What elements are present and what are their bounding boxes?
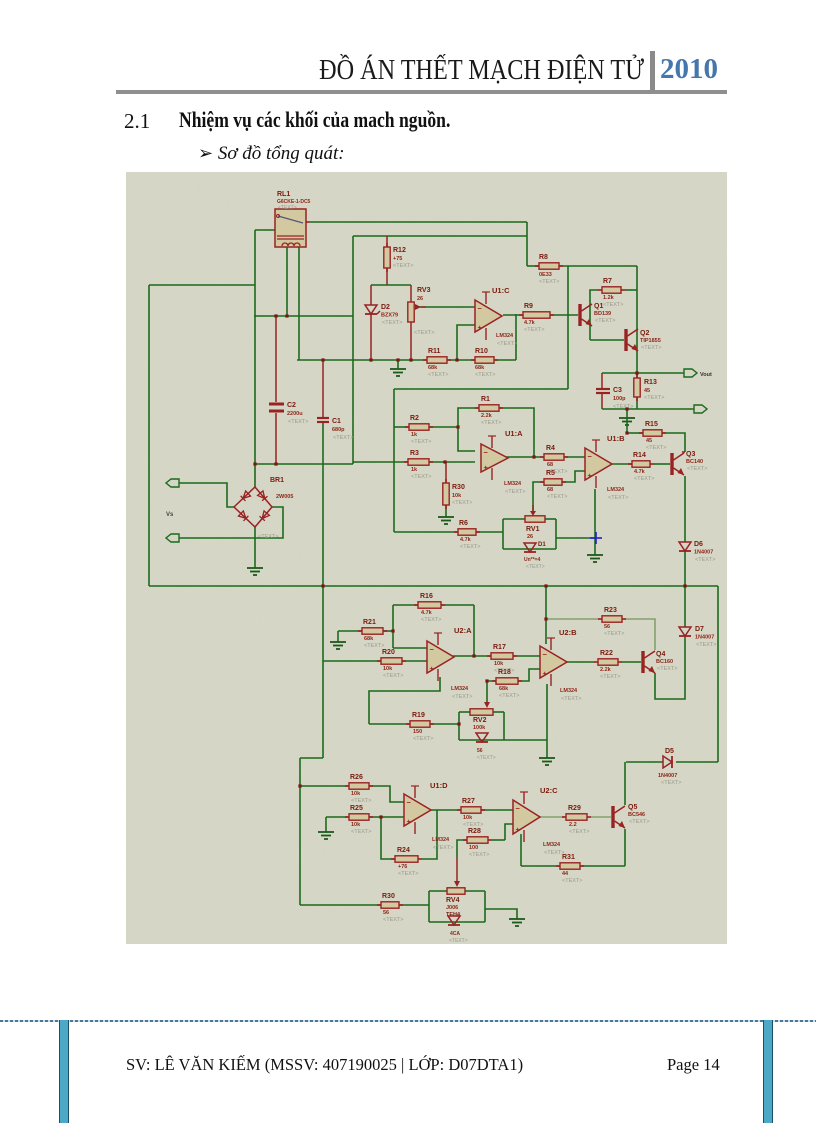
ground (RV2) xyxy=(539,757,555,759)
ground (R21) xyxy=(330,641,346,643)
resistor R5 xyxy=(540,481,544,483)
svg-text:R30: R30 xyxy=(382,893,395,900)
header title xyxy=(87,55,644,87)
svg-text:<TEXT>: <TEXT> xyxy=(539,279,559,285)
svg-text:<TEXT>: <TEXT> xyxy=(608,495,628,501)
wire y316 row xyxy=(254,315,353,317)
svg-text:10k: 10k xyxy=(452,493,462,499)
svg-text:68k: 68k xyxy=(428,365,438,371)
svg-text:RL1: RL1 xyxy=(277,191,290,198)
wire y758 jog xyxy=(300,757,323,759)
wire Q4 emitter loop xyxy=(655,637,685,699)
svg-text:<TEXT>: <TEXT> xyxy=(604,631,624,637)
svg-text:<TEXT>: <TEXT> xyxy=(481,420,501,426)
svg-text:<TEXT>: <TEXT> xyxy=(278,205,297,211)
wire U2:B out to R22 xyxy=(566,661,594,663)
svg-text:<TEXT>: <TEXT> xyxy=(603,302,623,308)
wire RV2 right rail xyxy=(503,712,505,740)
wire RV1 box bottom rail xyxy=(503,548,556,550)
ground (R11 row) xyxy=(390,368,406,370)
wire RV1 rail top xyxy=(503,518,525,520)
wire C1 top stem xyxy=(322,360,324,417)
svg-text:LM324: LM324 xyxy=(543,842,561,848)
page number xyxy=(667,1055,720,1075)
svg-text:<TEXT>: <TEXT> xyxy=(452,500,472,506)
wire R14 to Q3 base xyxy=(654,463,670,465)
svg-text:−: − xyxy=(407,798,412,807)
resistor R18 xyxy=(492,680,496,682)
wire RV4 wiper red xyxy=(456,858,458,884)
wire R25 gnd stem xyxy=(325,817,327,832)
wire y360 row xyxy=(297,359,427,361)
svg-text:R25: R25 xyxy=(350,805,363,812)
wire main +rail x637 xyxy=(636,266,638,378)
svg-text:R18: R18 xyxy=(498,669,511,676)
svg-text:<TEXT>: <TEXT> xyxy=(421,617,441,623)
svg-text:1N4007: 1N4007 xyxy=(695,635,714,641)
wire R22 to Q4 base xyxy=(622,661,641,663)
svg-text:680p: 680p xyxy=(332,427,345,433)
wire R7 right to rail xyxy=(625,289,637,291)
svg-text:RV3: RV3 xyxy=(417,287,431,294)
svg-text:LM324: LM324 xyxy=(607,487,625,493)
svg-text:R13: R13 xyxy=(644,379,657,386)
wire R21 row xyxy=(338,630,362,632)
wire input terminal bottom elbow xyxy=(179,507,283,538)
wire R4 to U1:B plus xyxy=(564,456,585,458)
wire U2:C bottom to R31 xyxy=(520,834,522,866)
svg-text:<TEXT>: <TEXT> xyxy=(524,327,544,333)
wire R9 to Q1 base xyxy=(550,314,578,316)
transistor Q4 xyxy=(641,651,644,673)
svg-text:R7: R7 xyxy=(603,278,612,285)
svg-text:4.7k: 4.7k xyxy=(421,610,433,616)
svg-text:<TEXT>: <TEXT> xyxy=(613,404,633,410)
wire U1:C feedback x516 xyxy=(515,314,517,360)
resistor R9 xyxy=(519,314,523,316)
svg-text:68: 68 xyxy=(547,462,553,468)
wire RV2 box left rail xyxy=(458,712,460,740)
svg-text:<TEXT>: <TEXT> xyxy=(333,435,353,441)
wire x527 drop xyxy=(526,222,528,266)
svg-text:Vs: Vs xyxy=(166,512,174,518)
svg-text:R21: R21 xyxy=(363,619,376,626)
wire U1:D out row xyxy=(430,809,461,811)
potentiometer RV2 xyxy=(470,709,493,715)
header year xyxy=(660,53,718,86)
svg-text:U1:C: U1:C xyxy=(492,286,510,295)
wire U2:A bottom loop to R19 xyxy=(369,677,440,724)
diode D3 xyxy=(476,733,488,742)
wire U2:A out row xyxy=(453,655,491,657)
svg-text:U2:B: U2:B xyxy=(559,628,577,637)
wire Q3 collector diag join xyxy=(682,451,685,453)
wire D6 to supply rail xyxy=(684,551,686,586)
wire R3 row xyxy=(353,461,408,463)
transistor Q2 xyxy=(624,329,627,351)
bridge rectifier BR1 xyxy=(234,487,272,527)
wire U1:B out to R14 xyxy=(609,463,632,465)
svg-text:<TEXT>: <TEXT> xyxy=(562,878,582,884)
resistor R30 xyxy=(445,479,447,483)
wire R21 gnd stem xyxy=(337,631,339,642)
ground (R25) xyxy=(318,831,334,833)
svg-text:R9: R9 xyxy=(524,303,533,310)
wire R13 bottom stem xyxy=(636,397,638,409)
svg-text:RV1: RV1 xyxy=(526,526,540,533)
diode D1 xyxy=(524,543,536,552)
wire relay left pin xyxy=(255,229,277,231)
wire RV4 tap to ground xyxy=(485,909,517,919)
capacitor C3 xyxy=(596,388,610,390)
svg-text:<TEXT>: <TEXT> xyxy=(477,755,496,761)
svg-text:C1: C1 xyxy=(332,418,341,425)
svg-text:Q2: Q2 xyxy=(640,330,649,337)
wire C1 bottom long vertical xyxy=(322,423,324,586)
junctions xyxy=(253,462,256,465)
wire U2:B gnd vertical xyxy=(546,684,548,758)
svg-text:Q1: Q1 xyxy=(594,303,603,310)
svg-text:<TEXT>: <TEXT> xyxy=(398,871,418,877)
svg-text:R8: R8 xyxy=(539,254,548,261)
wire x394 vertical xyxy=(393,389,395,532)
wire U2:C out to R29 pale xyxy=(539,816,566,818)
resistor R22 xyxy=(594,661,598,663)
svg-text:−: − xyxy=(516,804,521,813)
svg-text:10k: 10k xyxy=(351,822,361,828)
svg-text:<TEXT>: <TEXT> xyxy=(561,696,581,702)
svg-text:56: 56 xyxy=(604,624,610,630)
svg-text:+76: +76 xyxy=(398,864,407,870)
svg-text:<TEXT>: <TEXT> xyxy=(695,557,715,563)
wire R28 left to RV4 wiper xyxy=(457,840,467,858)
resistor R26 xyxy=(345,785,349,787)
wire R1 right loop xyxy=(499,408,534,457)
wire D7 top stem xyxy=(684,586,686,627)
wire RV3 stems xyxy=(410,285,412,302)
svg-text:R1: R1 xyxy=(481,396,490,403)
wire R24 left to R25 node xyxy=(381,817,395,859)
wire right edge vertical x718 xyxy=(717,586,719,762)
wire C2 top stem xyxy=(275,316,277,402)
footer dashed line xyxy=(0,1020,816,1022)
wire x324 lower vertical xyxy=(322,586,324,758)
svg-text:4CA: 4CA xyxy=(450,931,460,937)
svg-text:68k: 68k xyxy=(475,365,485,371)
header vertical bar xyxy=(650,51,655,93)
svg-text:R28: R28 xyxy=(468,828,481,835)
svg-text:Un**=4: Un**=4 xyxy=(524,557,540,563)
wire R26 elbow to U1:D xyxy=(369,786,404,802)
wire R28 row xyxy=(492,839,505,841)
wire R19 row xyxy=(369,723,410,725)
wire Q3 emitter down to D6 xyxy=(684,476,686,542)
op-amp U2:C xyxy=(513,800,540,834)
resistor R28 xyxy=(463,839,467,841)
wire R18 elbow to U2:B xyxy=(518,669,540,681)
svg-text:100: 100 xyxy=(469,845,478,851)
diode D4 xyxy=(448,916,460,925)
wire RV2 top rail xyxy=(459,711,470,713)
wire U2:A plus row y661 xyxy=(323,660,381,662)
svg-text:Q3: Q3 xyxy=(686,451,695,458)
svg-text:R11: R11 xyxy=(428,348,441,355)
wire y285 spur xyxy=(149,284,255,286)
svg-text:LM324: LM324 xyxy=(451,686,469,692)
svg-text:LM324: LM324 xyxy=(560,688,578,694)
svg-text:0E33: 0E33 xyxy=(539,272,552,278)
svg-text:<TEXT>: <TEXT> xyxy=(687,466,707,472)
wire supply bottom rail y586 xyxy=(149,585,718,587)
wire R15 right to Q3 collector xyxy=(662,433,685,452)
svg-text:R16: R16 xyxy=(420,593,433,600)
svg-text:<TEXT>: <TEXT> xyxy=(544,850,564,856)
resistor R15 xyxy=(639,432,643,434)
svg-text:U1:A: U1:A xyxy=(505,429,523,438)
svg-text:2.2k: 2.2k xyxy=(600,667,612,673)
footer text xyxy=(126,1055,523,1075)
input terminal top xyxy=(166,479,179,487)
svg-text:R30: R30 xyxy=(452,484,465,491)
wire U1:B bottom to ground xyxy=(594,489,596,555)
wire U1:D feedback x437 xyxy=(422,810,437,859)
svg-text:BC140: BC140 xyxy=(686,459,703,465)
bullet line xyxy=(198,143,345,165)
svg-text:<TEXT>: <TEXT> xyxy=(629,819,649,825)
wire RV1 box left rail xyxy=(502,519,504,549)
svg-text:Vout: Vout xyxy=(700,372,712,378)
svg-text:<TEXT>: <TEXT> xyxy=(383,917,403,923)
ground (R15) xyxy=(619,417,635,419)
svg-text:2W005: 2W005 xyxy=(276,494,293,500)
svg-text:<TEXT>: <TEXT> xyxy=(433,845,453,851)
diode D5 xyxy=(663,756,672,768)
svg-text:+: + xyxy=(516,825,521,834)
svg-text:+: + xyxy=(430,664,435,673)
wire R5 elbow to U1:B minus xyxy=(562,471,585,482)
wire D5 row xyxy=(626,761,663,763)
schematic panel xyxy=(126,172,727,944)
svg-text:<TEXT>: <TEXT> xyxy=(497,341,517,347)
wire Q1 emitter to Q2 base xyxy=(590,339,624,341)
resistor R27 xyxy=(457,809,461,811)
wire bias vertical x568 xyxy=(567,266,569,389)
svg-text:2200u: 2200u xyxy=(287,411,303,417)
wire R28 elbow to U2:C minus xyxy=(505,824,513,840)
svg-text:D2: D2 xyxy=(381,304,390,311)
wire Q1 collector up xyxy=(590,290,598,340)
wire out row y409 xyxy=(602,408,694,410)
svg-text:R4: R4 xyxy=(546,445,555,452)
svg-text:R26: R26 xyxy=(350,774,363,781)
svg-text:26: 26 xyxy=(527,534,533,540)
svg-text:<TEXT>: <TEXT> xyxy=(499,693,519,699)
svg-text:<TEXT>: <TEXT> xyxy=(393,263,413,269)
potentiometer RV3 xyxy=(408,302,414,322)
svg-text:R23: R23 xyxy=(604,607,617,614)
svg-text:<TEXT>: <TEXT> xyxy=(634,476,654,482)
svg-text:R22: R22 xyxy=(600,650,613,657)
svg-text:U1:B: U1:B xyxy=(607,434,625,443)
wire C3 bottom stem xyxy=(601,394,603,409)
svg-text:R5: R5 xyxy=(546,470,555,477)
svg-text:U2:A: U2:A xyxy=(454,626,472,635)
svg-text:+: + xyxy=(543,669,548,678)
wire gnd stem under out row xyxy=(626,409,628,416)
wire RV4 box left rail xyxy=(428,891,430,922)
wire bridge bottom to ground xyxy=(254,527,256,568)
svg-text:C2: C2 xyxy=(287,402,296,409)
svg-text:+: + xyxy=(484,463,489,472)
wire R18 left drop to RV2 wiper xyxy=(487,681,496,705)
svg-text:<TEXT>: <TEXT> xyxy=(411,439,431,445)
wire R6 row xyxy=(394,531,458,533)
wire U1:C out to R9 xyxy=(503,314,523,316)
resistor R11 xyxy=(423,359,427,361)
svg-text:−: − xyxy=(478,304,483,313)
ground (R30a) xyxy=(438,516,454,518)
svg-text:<TEXT>: <TEXT> xyxy=(288,419,308,425)
wire R30a to ground xyxy=(445,505,447,517)
svg-text:−: − xyxy=(430,645,435,654)
svg-text:68: 68 xyxy=(547,487,553,493)
svg-text:D7: D7 xyxy=(695,626,704,633)
header rule xyxy=(116,90,727,94)
wire R12 bottom stem xyxy=(386,268,388,285)
wire Q5 collector up xyxy=(624,762,626,805)
wire RV2 bottom rail to gnd xyxy=(459,739,547,741)
svg-text:150: 150 xyxy=(413,729,422,735)
svg-text:45: 45 xyxy=(644,388,650,394)
wire relay coil pin1 drop xyxy=(286,247,288,316)
svg-text:56: 56 xyxy=(383,910,389,916)
svg-text:Q5: Q5 xyxy=(628,804,637,811)
wire far-left vertical x149 xyxy=(148,285,150,586)
resistor R6 xyxy=(454,531,458,533)
wire y464 rectified rail xyxy=(255,463,353,465)
svg-text:LM324: LM324 xyxy=(496,333,514,339)
svg-text:LM324: LM324 xyxy=(504,481,522,487)
svg-text:4.7k: 4.7k xyxy=(524,320,536,326)
resistor R29 xyxy=(562,816,566,818)
wire U2 supply vertical x546 xyxy=(545,586,547,644)
op-amp U2:B xyxy=(540,646,567,678)
wire relay coil pin2 drop xyxy=(298,247,300,360)
svg-text:R19: R19 xyxy=(412,712,425,719)
wire y389 row xyxy=(394,388,568,390)
potentiometer RV1 xyxy=(525,516,545,522)
resistor R25 xyxy=(345,816,349,818)
resistor R16 xyxy=(414,604,418,606)
svg-text:4.7k: 4.7k xyxy=(460,537,472,543)
wire RV1 tap to node xyxy=(556,537,595,539)
svg-text:<TEXT>: <TEXT> xyxy=(646,445,666,451)
svg-text:1k: 1k xyxy=(411,432,418,438)
wire U1:C plus input xyxy=(457,325,475,360)
ground (bridge) xyxy=(247,567,263,569)
svg-text:BZX79: BZX79 xyxy=(381,313,398,319)
wire R1 left loop xyxy=(458,408,479,451)
wire relay switch to x527 rail xyxy=(309,221,527,223)
svg-text:<TEXT>: <TEXT> xyxy=(475,372,495,378)
wire C3 top stem xyxy=(601,373,603,388)
svg-text:R17: R17 xyxy=(493,644,506,651)
resistor R14 xyxy=(628,463,632,465)
svg-text:26: 26 xyxy=(417,296,423,302)
wire R2 row xyxy=(394,426,409,428)
svg-text:+: + xyxy=(407,817,412,826)
wire R15 left xyxy=(627,432,643,434)
svg-text:RV2: RV2 xyxy=(473,717,487,724)
svg-text:<TEXT>: <TEXT> xyxy=(644,395,664,401)
wire R16 feedback x474 xyxy=(473,605,475,656)
wire R23 right to Q4 collector xyxy=(626,619,655,650)
svg-text:68k: 68k xyxy=(364,636,374,642)
svg-text:<TEXT>: <TEXT> xyxy=(600,674,620,680)
wire RV3 wiper to U1:C xyxy=(416,306,475,308)
input terminal bottom xyxy=(166,534,179,542)
wire D2 stems xyxy=(370,285,372,305)
svg-text:<TEXT>: <TEXT> xyxy=(469,852,489,858)
svg-text:<TEXT>: <TEXT> xyxy=(452,694,472,700)
svg-text:−: − xyxy=(588,452,593,461)
svg-text:<TEXT>: <TEXT> xyxy=(547,494,567,500)
svg-text:+75: +75 xyxy=(393,256,402,262)
svg-text:R20: R20 xyxy=(382,649,395,656)
resistor R23 xyxy=(598,618,602,620)
resistor R24 xyxy=(391,858,395,860)
svg-text:45: 45 xyxy=(646,438,652,444)
resistor R2 xyxy=(405,426,409,428)
svg-text:J006: J006 xyxy=(446,905,458,911)
svg-text:10k: 10k xyxy=(463,815,473,821)
svg-text:R14: R14 xyxy=(633,452,646,459)
transistor Q1 xyxy=(578,304,581,326)
wire R27 to U2:C xyxy=(481,809,513,811)
svg-text:4.7k: 4.7k xyxy=(634,469,646,475)
resistor R3 xyxy=(404,461,408,463)
wire x353 vertical xyxy=(352,236,354,464)
capacitor C1 xyxy=(317,417,329,419)
svg-text:<TEXT>: <TEXT> xyxy=(696,642,716,648)
potentiometer RV4 xyxy=(447,888,465,894)
svg-text:−: − xyxy=(484,448,489,457)
wire input terminal top elbow xyxy=(179,483,234,507)
transistor Q5 xyxy=(611,806,614,828)
wire R23 row pale xyxy=(546,618,598,620)
wire x300 vertical xyxy=(299,758,301,905)
resistor R4 xyxy=(540,456,544,458)
svg-text:R10: R10 xyxy=(475,348,488,355)
diode D6 xyxy=(679,542,691,551)
resistor R10 xyxy=(471,359,475,361)
resistor R7 xyxy=(598,289,602,291)
ground (RV4) xyxy=(509,918,525,920)
svg-text:BD139: BD139 xyxy=(594,311,611,317)
svg-text:<TEXT>: <TEXT> xyxy=(657,666,677,672)
wire R25 row xyxy=(326,816,349,818)
svg-text:D5: D5 xyxy=(665,748,674,755)
svg-text:<TEXT>: <TEXT> xyxy=(641,345,661,351)
wire RV1 box right rail xyxy=(555,519,557,549)
op-amp U2:A xyxy=(427,641,454,673)
svg-text:R3: R3 xyxy=(410,450,419,457)
svg-text:68k: 68k xyxy=(499,686,509,692)
wire R5 left to RV1 wiper xyxy=(533,482,544,512)
svg-text:<TEXT>: <TEXT> xyxy=(595,318,615,324)
svg-text:R2: R2 xyxy=(410,415,419,422)
diode D7 xyxy=(679,627,691,636)
